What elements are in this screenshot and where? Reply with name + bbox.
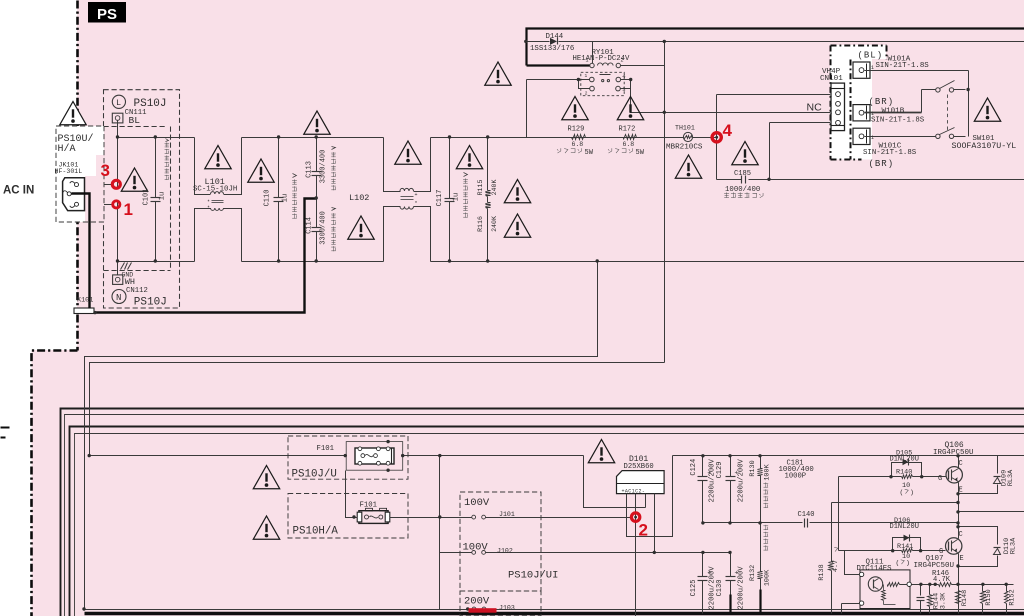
svg-text:R172: R172 [619, 126, 636, 134]
svg-text:R141: R141 [897, 543, 913, 551]
svg-text:200V: 200V [464, 596, 490, 608]
svg-text:RL3A: RL3A [1007, 469, 1015, 486]
svg-text:HE1AN-P-DC24V: HE1AN-P-DC24V [573, 55, 631, 63]
svg-text:C114: C114 [306, 217, 314, 234]
svg-text:4.7: 4.7 [832, 560, 840, 572]
svg-text:NC: NC [807, 102, 823, 114]
svg-text:R129: R129 [568, 126, 585, 134]
svg-text:1000P: 1000P [785, 473, 807, 481]
svg-text:R132: R132 [749, 565, 757, 581]
svg-text:PS10J/U: PS10J/U [292, 469, 337, 481]
svg-text:1SS133/176: 1SS133/176 [530, 45, 574, 53]
svg-text:IRG4PC50U: IRG4PC50U [933, 449, 974, 457]
svg-text:SC-15-10JH: SC-15-10JH [193, 186, 237, 194]
svg-text:PS10H/A: PS10H/A [293, 526, 339, 538]
svg-text:E: E [960, 555, 964, 563]
svg-text:C125: C125 [690, 580, 698, 597]
svg-text:C: C [959, 460, 963, 468]
svg-text:C129: C129 [716, 462, 724, 479]
svg-text:100V: 100V [464, 497, 490, 509]
svg-text:2200u/200V: 2200u/200V [708, 459, 716, 503]
svg-text:240K: 240K [491, 180, 498, 196]
svg-text:3.3K: 3.3K [940, 592, 948, 609]
svg-text:2200u/200V: 2200u/200V [708, 566, 716, 610]
svg-text:E: E [959, 487, 963, 495]
svg-text:MBR210CS: MBR210CS [666, 144, 703, 152]
svg-text:W101B: W101B [882, 108, 905, 116]
svg-text:3300/400: 3300/400 [320, 211, 328, 245]
svg-text:G: G [938, 475, 942, 483]
svg-text:J101: J101 [499, 511, 515, 518]
svg-text:C110: C110 [264, 190, 272, 207]
svg-text:100V: 100V [463, 542, 489, 554]
svg-text:): ) [910, 489, 914, 496]
svg-text:2: 2 [585, 91, 588, 97]
svg-text:D144: D144 [546, 33, 564, 41]
svg-text:1: 1 [124, 200, 133, 219]
svg-text:240K: 240K [491, 216, 498, 232]
svg-text:1u: 1u [159, 192, 167, 200]
svg-text:2200u/200V: 2200u/200V [738, 566, 746, 610]
svg-text:(BR): (BR) [869, 159, 895, 169]
svg-text:1u: 1u [453, 193, 461, 201]
svg-text:PS10J: PS10J [134, 98, 167, 110]
svg-text:+AC1C2-: +AC1C2- [622, 488, 646, 494]
svg-text:100K: 100K [763, 569, 771, 586]
svg-text:D1NL20U: D1NL20U [890, 523, 919, 531]
svg-text:5W: 5W [636, 149, 645, 157]
svg-text:4.7K: 4.7K [933, 576, 951, 584]
svg-text:DTC114ES: DTC114ES [857, 565, 893, 573]
svg-text:PS10J/UI: PS10J/UI [508, 570, 558, 582]
svg-text:HF-301L: HF-301L [55, 168, 83, 175]
svg-text:C140: C140 [798, 511, 815, 519]
svg-text:1000/400: 1000/400 [725, 186, 760, 194]
svg-text:IRG4PC50U: IRG4PC50U [914, 562, 955, 570]
svg-text:(BL): (BL) [858, 51, 884, 61]
svg-text:H/A: H/A [58, 143, 76, 155]
svg-text:R152: R152 [1009, 589, 1017, 605]
svg-text:C113: C113 [306, 161, 314, 178]
svg-text:R148: R148 [961, 590, 969, 606]
svg-text:R115: R115 [477, 180, 484, 196]
svg-text:C130: C130 [716, 580, 724, 597]
svg-text:RL3A: RL3A [1010, 537, 1018, 554]
svg-text:(: ( [896, 560, 900, 567]
svg-text:SIN-21T-1.8S: SIN-21T-1.8S [871, 117, 925, 125]
svg-text:CN112: CN112 [126, 287, 148, 295]
svg-text:2200u/200V: 2200u/200V [738, 458, 746, 502]
svg-text:TH101: TH101 [675, 125, 695, 132]
svg-text:C185: C185 [734, 170, 751, 178]
svg-text:CN101: CN101 [820, 75, 843, 83]
svg-text:C101: C101 [143, 189, 151, 206]
svg-text:*: * [415, 201, 418, 207]
svg-text:100K: 100K [763, 463, 771, 480]
svg-text:3300/400: 3300/400 [320, 150, 328, 184]
svg-text:5W: 5W [585, 149, 594, 157]
svg-text:J102: J102 [497, 548, 513, 555]
svg-text:R138: R138 [818, 564, 826, 580]
svg-text:SIN-21T-1.8S: SIN-21T-1.8S [863, 149, 917, 157]
svg-text:+: + [415, 192, 418, 198]
svg-text:3: 3 [622, 86, 625, 93]
svg-text:): ) [906, 560, 910, 567]
svg-text:R150: R150 [985, 589, 993, 605]
svg-text:L102: L102 [349, 193, 369, 203]
svg-text:R116: R116 [477, 216, 484, 232]
svg-text:C117: C117 [436, 190, 444, 207]
svg-text:F101: F101 [317, 445, 335, 453]
svg-text:AC IN: AC IN [3, 185, 34, 197]
svg-text:PS10J: PS10J [134, 296, 167, 308]
svg-text:R130: R130 [749, 460, 757, 476]
svg-text:WH: WH [125, 277, 135, 287]
svg-text:K101: K101 [77, 297, 93, 305]
svg-text:6.8: 6.8 [572, 141, 584, 148]
svg-text:*: * [207, 206, 210, 212]
svg-text:J103: J103 [499, 605, 515, 612]
svg-text:C124: C124 [690, 459, 698, 476]
svg-text:4: 4 [723, 121, 733, 140]
svg-text:SOOFA3107U-YL: SOOFA3107U-YL [952, 142, 1017, 151]
svg-text:3: 3 [101, 161, 110, 180]
svg-text:L: L [116, 98, 121, 108]
svg-text:SIN-21T-1.8S: SIN-21T-1.8S [876, 62, 930, 70]
svg-text:2: 2 [639, 521, 648, 540]
svg-text:D1NL20U: D1NL20U [890, 456, 919, 464]
svg-text:(BR): (BR) [869, 97, 895, 107]
svg-text:D25XB60: D25XB60 [624, 463, 654, 471]
svg-text:PS: PS [97, 6, 117, 23]
svg-text:F101: F101 [360, 502, 378, 510]
svg-text:(: ( [900, 489, 904, 496]
svg-text:6.8: 6.8 [623, 141, 635, 148]
svg-text:C: C [959, 531, 963, 539]
svg-text:1: 1 [585, 73, 588, 79]
svg-text:1u: 1u [282, 194, 290, 202]
svg-text:N: N [116, 293, 121, 303]
svg-text:BL: BL [129, 115, 141, 126]
svg-text:R140: R140 [896, 469, 912, 477]
